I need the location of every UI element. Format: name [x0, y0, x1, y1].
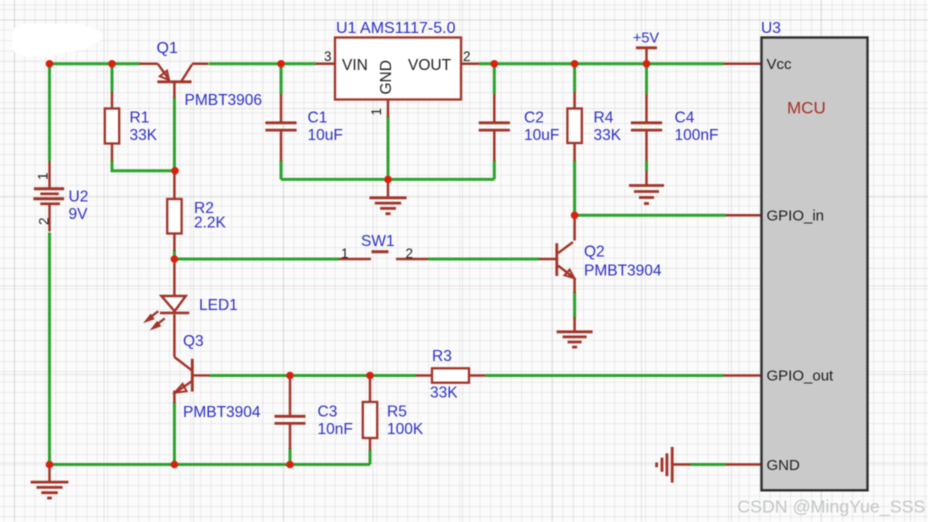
C4 leads: [645, 94, 648, 123]
R3 leads: [416, 374, 433, 377]
SW1 leads: [339, 258, 371, 261]
junction: [491, 60, 499, 68]
wire C1 bottom: [280, 161, 283, 180]
svg-text:100nF: 100nF: [675, 127, 719, 144]
R5 leads: [369, 376, 372, 403]
svg-text:Q3: Q3: [183, 333, 204, 350]
transistor Q2: [557, 242, 575, 278]
junction: [571, 60, 579, 68]
wire Q1 base to node: [173, 98, 176, 171]
wire gnd rail C1 to C2: [281, 178, 494, 181]
wire C3 bottom: [289, 448, 292, 465]
svg-text:GND: GND: [378, 60, 395, 94]
battery U2: [34, 187, 64, 190]
svg-text:VOUT: VOUT: [408, 57, 452, 74]
capacitor C3: [275, 415, 306, 418]
wire C4 top: [645, 64, 648, 94]
wire R1 bottom elbow to node: [112, 161, 175, 171]
wire SW1 pin2 to Q2 base: [428, 258, 540, 261]
wire U1 gnd pin: [387, 116, 390, 179]
wire bottom rail: [50, 463, 371, 466]
svg-text:LED1: LED1: [199, 297, 238, 314]
capacitor C2: [479, 121, 510, 124]
transistor Q3: [174, 357, 209, 393]
MCU U3 box: [762, 38, 868, 491]
junction: [171, 255, 179, 263]
junction: [171, 167, 179, 175]
Vcc pin stub: [724, 63, 762, 66]
svg-text:R1: R1: [130, 110, 150, 127]
junction: [46, 461, 54, 469]
wire C1 top: [280, 64, 283, 94]
Q3 emitter lead: [173, 391, 176, 404]
svg-text:2.2K: 2.2K: [194, 215, 227, 232]
junction: [571, 212, 579, 220]
battery leads: [48, 161, 51, 188]
junction: [171, 461, 179, 469]
svg-text:R5: R5: [387, 404, 407, 421]
wire C2 bottom: [493, 161, 496, 180]
wire R3 to GPIO_out: [485, 374, 723, 377]
capacitor C4: [631, 121, 662, 124]
ground symbol at MCU GND (rotated): [657, 447, 673, 483]
ground stub bottom left: [48, 465, 51, 482]
wire top rail Q1 to C1: [209, 62, 316, 65]
R2 body: [167, 199, 181, 234]
svg-text:C2: C2: [524, 110, 544, 127]
transistor Q1: [140, 64, 209, 98]
switch SW1: [372, 250, 389, 253]
regulator U1 box: [335, 38, 461, 100]
svg-text:1: 1: [36, 172, 51, 180]
R1 body: [105, 109, 119, 144]
svg-text:PMBT3904: PMBT3904: [183, 404, 261, 421]
Q2 collector lead: [573, 215, 576, 240]
wire Q2 emitter to gnd: [573, 292, 576, 318]
ground under C4: [629, 184, 664, 187]
wire MCU GND to ground: [691, 463, 727, 466]
wire left rail lower: [48, 233, 51, 465]
GPIO_in pin stub: [726, 214, 762, 217]
R4 leads: [573, 92, 576, 109]
junction: [286, 461, 294, 469]
LED LED1: [145, 296, 190, 329]
wire R1 top: [111, 64, 114, 92]
ground under Q2: [557, 330, 593, 333]
svg-text:C4: C4: [675, 110, 695, 127]
svg-text:CSDN @MingYue_SSS: CSDN @MingYue_SSS: [737, 497, 925, 518]
Q2 emitter lead: [573, 278, 576, 294]
svg-text:C3: C3: [318, 404, 338, 421]
wire node to SW1 pin1: [174, 258, 339, 261]
junction: [46, 60, 54, 68]
wire C2 top: [493, 64, 496, 94]
svg-text:33K: 33K: [594, 127, 622, 144]
U1 pin2 lead: [461, 63, 479, 66]
U1 pin1 lead: [387, 100, 390, 118]
wire Q3 emitter to bottom rail: [173, 402, 176, 465]
junction: [108, 60, 116, 68]
GPIO_out pin stub: [724, 374, 762, 377]
wire top rail left: [50, 62, 141, 65]
svg-text:3: 3: [324, 49, 332, 64]
wire R2 bottom: [173, 250, 176, 259]
C1 leads: [280, 94, 283, 123]
svg-text:PMBT3906: PMBT3906: [185, 92, 263, 109]
svg-text:1: 1: [341, 246, 349, 261]
svg-text:Vcc: Vcc: [767, 56, 793, 73]
svg-text:100K: 100K: [387, 421, 424, 438]
LED cathode lead: [173, 315, 176, 358]
svg-text:GPIO_in: GPIO_in: [767, 208, 825, 225]
svg-text:GND: GND: [767, 457, 801, 474]
R1 leads: [111, 92, 114, 109]
wire top rail VOUT to Vcc: [479, 62, 724, 65]
svg-text:Q2: Q2: [584, 244, 605, 261]
svg-text:2: 2: [37, 217, 52, 225]
svg-text:R3: R3: [432, 348, 452, 365]
C2 leads: [493, 94, 496, 123]
wire C4 bottom: [645, 161, 648, 171]
svg-text:R4: R4: [594, 110, 614, 127]
svg-text:10nF: 10nF: [318, 421, 353, 438]
U1 pin3 lead: [316, 63, 335, 66]
wire R4 top: [573, 64, 576, 92]
junction: [366, 372, 374, 380]
ground stub U1: [387, 179, 390, 197]
svg-text:10uF: 10uF: [308, 127, 343, 144]
C3 leads: [289, 376, 292, 417]
wire Q3 base to R3: [210, 374, 416, 377]
svg-text:GPIO_out: GPIO_out: [767, 368, 835, 385]
ground bottom left: [31, 481, 69, 484]
svg-text:C1: C1: [308, 110, 328, 127]
svg-text:VIN: VIN: [342, 57, 368, 74]
Q2 base lead: [539, 258, 557, 261]
R3 body: [432, 368, 469, 382]
svg-text:U2: U2: [69, 189, 89, 206]
ground under U1: [370, 196, 407, 199]
svg-text:PMBT3904: PMBT3904: [584, 263, 662, 280]
svg-text:SW1: SW1: [361, 233, 395, 250]
svg-text:Q1: Q1: [157, 40, 178, 57]
wire left rail upper: [48, 64, 51, 161]
svg-text:U1 AMS1117-5.0: U1 AMS1117-5.0: [336, 20, 456, 37]
svg-text:2: 2: [463, 49, 471, 64]
junction: [643, 60, 651, 68]
R5 body: [363, 402, 377, 438]
svg-text:2: 2: [406, 246, 414, 261]
svg-text:9V: 9V: [69, 206, 89, 223]
junction: [384, 176, 392, 184]
svg-text:1: 1: [369, 108, 384, 116]
junction: [286, 372, 294, 380]
svg-text:U3: U3: [761, 20, 781, 37]
power flag +5V: [636, 46, 657, 49]
GND pin stub: [726, 463, 762, 466]
capacitor C1: [265, 121, 296, 124]
gnd sym lead: [672, 463, 690, 466]
junction: [277, 60, 285, 68]
svg-text:+5V: +5V: [633, 31, 660, 47]
LED anode lead: [173, 259, 176, 296]
svg-text:33K: 33K: [430, 385, 458, 402]
svg-text:10uF: 10uF: [524, 127, 559, 144]
wire R4 bottom: [573, 161, 576, 216]
svg-text:33K: 33K: [130, 127, 158, 144]
wire R5 bottom: [369, 450, 372, 465]
svg-text:MCU: MCU: [787, 99, 826, 118]
R2 leads: [173, 171, 176, 199]
wire GPIO_in: [575, 214, 726, 217]
R4 body: [567, 109, 581, 144]
